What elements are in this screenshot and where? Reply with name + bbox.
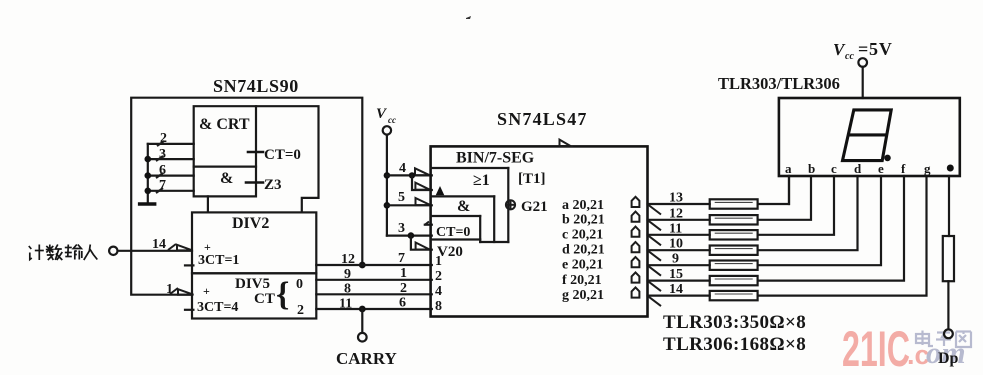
- svg-text:e: e: [878, 161, 884, 176]
- reset pins bus: [147, 144, 149, 204]
- internal CT box bottom: [431, 238, 481, 240]
- internal bottom joining: [480, 241, 508, 243]
- display pin dp wire: [948, 176, 950, 236]
- output row d: [562, 242, 639, 258]
- wire seg d out: [648, 249, 710, 251]
- svg-text:1: 1: [400, 266, 407, 281]
- 输: [65, 247, 72, 249]
- svg-text:{: {: [276, 276, 289, 313]
- 计: [29, 246, 32, 249]
- svg-text:CT=0: CT=0: [264, 147, 301, 163]
- wire pin3 branch: [411, 236, 432, 250]
- svg-text:3CT=1: 3CT=1: [198, 253, 239, 268]
- stub out DIV5: [185, 309, 193, 311]
- wire pin4 branch to RBI gate: [412, 175, 432, 190]
- svg-text:b: b: [808, 161, 815, 176]
- tick Z3: [246, 181, 263, 184]
- tick 3: [156, 156, 163, 161]
- resistor Rg: [710, 291, 758, 300]
- polarity triangle pin3 branch: [416, 243, 430, 250]
- wire g to display: [758, 176, 927, 296]
- svg-text:0: 0: [296, 277, 303, 292]
- display body: [779, 98, 960, 176]
- watermark 21IC.com 电子网: [842, 321, 971, 375]
- svg-text:3: 3: [398, 221, 405, 236]
- svg-text:15: 15: [669, 267, 683, 282]
- svg-text:14: 14: [152, 237, 166, 252]
- wire seg f out: [648, 280, 710, 282]
- svg-text:& CRT: & CRT: [199, 116, 250, 133]
- resistor Rd: [710, 246, 758, 255]
- slash e: [649, 266, 662, 276]
- wire e to display: [758, 176, 881, 265]
- junction pin6 bus: [145, 172, 152, 179]
- tick 6: [156, 173, 163, 178]
- LS90 control block box: [194, 106, 319, 212]
- tick 7: [156, 188, 163, 193]
- wire seg e out: [648, 264, 710, 266]
- svg-text:SN74LS47: SN74LS47: [497, 109, 588, 129]
- wire Vcc down: [386, 135, 388, 236]
- svg-text:f: f: [901, 161, 906, 176]
- svg-text:8: 8: [435, 299, 442, 314]
- output row g: [562, 287, 639, 303]
- output row e: [562, 257, 639, 273]
- pin 6 wire: [148, 175, 194, 177]
- AND dependency marker: [436, 186, 445, 195]
- wire to carry terminal: [361, 309, 363, 333]
- slash b: [649, 221, 662, 231]
- svg-text:3: 3: [159, 147, 166, 162]
- decimal point dot: [884, 155, 891, 162]
- 入: [84, 245, 91, 261]
- DIV2 box: [192, 212, 316, 273]
- resistor Rc: [710, 230, 758, 239]
- 数: [46, 249, 54, 251]
- svg-text:≥1: ≥1: [473, 172, 490, 189]
- tick pin14: [168, 244, 176, 250]
- terminal count input: [109, 247, 117, 255]
- svg-text:9: 9: [672, 252, 679, 267]
- speck artifact top center: [466, 16, 471, 19]
- svg-text:b 20,21: b 20,21: [562, 213, 605, 228]
- output row a: [562, 197, 639, 213]
- wire QC row: [316, 293, 432, 295]
- junction pin3 bus: [145, 156, 152, 163]
- slash d: [649, 251, 662, 261]
- svg-text:BIN/7-SEG: BIN/7-SEG: [456, 150, 535, 167]
- internal CT box right: [479, 216, 481, 242]
- wire QA row: [316, 264, 432, 266]
- junction QD carry: [359, 306, 366, 313]
- output row b: [562, 212, 639, 228]
- slash g: [649, 297, 662, 307]
- display dp pin dot: [947, 165, 954, 172]
- DIV5 box: [192, 273, 316, 318]
- wire seg c out: [648, 234, 710, 236]
- svg-text:+: +: [204, 240, 211, 254]
- svg-text:cc: cc: [845, 51, 854, 62]
- slash f: [649, 282, 662, 292]
- ground: [138, 202, 157, 205]
- IC body 74LS47: [431, 146, 648, 316]
- junction pin4: [384, 172, 391, 179]
- svg-text:3CT=4: 3CT=4: [197, 300, 238, 315]
- wire Vcc to display: [862, 67, 864, 98]
- clock triangle CKB: [178, 289, 194, 295]
- svg-text:21IC: 21IC: [842, 321, 910, 375]
- svg-text:6: 6: [399, 296, 406, 311]
- svg-text:5: 5: [398, 190, 405, 205]
- svg-text:d: d: [854, 161, 862, 176]
- svg-text:f 20,21: f 20,21: [562, 273, 602, 288]
- tick pin1: [170, 288, 178, 294]
- svg-text:&: &: [220, 170, 233, 187]
- svg-text:G21: G21: [521, 199, 548, 215]
- wire input to pin14: [118, 250, 192, 252]
- pin 2 wire: [148, 143, 194, 145]
- svg-text:CT: CT: [254, 291, 275, 307]
- resistor Rf: [710, 276, 758, 285]
- svg-text:DIV2: DIV2: [232, 215, 269, 232]
- clock triangle CKA: [177, 245, 193, 251]
- svg-text:DIV5: DIV5: [235, 276, 270, 292]
- svg-text:1: 1: [435, 254, 442, 269]
- svg-text:2: 2: [435, 269, 442, 284]
- svg-text:+: +: [203, 284, 210, 298]
- RBO stub: [425, 224, 432, 226]
- wire seg g out: [648, 295, 710, 297]
- pin 3 wire: [148, 158, 194, 160]
- wire seg b out: [648, 219, 710, 221]
- svg-text:12: 12: [341, 252, 355, 267]
- watermark 电子网 glyphs: [916, 331, 971, 348]
- top polarity triangle: [560, 140, 571, 146]
- svg-text:9: 9: [344, 267, 351, 282]
- svg-text:d 20,21: d 20,21: [562, 243, 605, 258]
- wire a to display: [758, 176, 789, 204]
- svg-text:2: 2: [400, 281, 407, 296]
- internal OR block top: [431, 167, 509, 169]
- 网: [956, 332, 971, 348]
- svg-text:c: c: [831, 161, 837, 176]
- display pin a drop: [788, 176, 790, 204]
- svg-text:g 20,21: g 20,21: [562, 288, 604, 303]
- tick 2: [157, 141, 164, 146]
- svg-text:4: 4: [435, 284, 442, 299]
- output row f: [562, 272, 639, 288]
- internal OR block right: [507, 168, 509, 242]
- svg-text:11: 11: [669, 221, 682, 236]
- resistor Ra: [710, 199, 758, 208]
- junction pin7 bus: [145, 188, 152, 195]
- svg-text:c 20,21: c 20,21: [562, 228, 603, 243]
- stub out DIV2: [185, 264, 193, 266]
- internal AND block right: [493, 196, 495, 242]
- terminal CARRY: [358, 333, 367, 342]
- svg-text:&: &: [457, 198, 470, 215]
- pin 7 wire: [148, 190, 194, 192]
- terminal Vcc display: [858, 58, 867, 67]
- svg-text:2: 2: [297, 303, 304, 318]
- svg-text:CT=0: CT=0: [436, 225, 470, 240]
- svg-text:Dp: Dp: [938, 350, 959, 367]
- svg-text:CARRY: CARRY: [336, 349, 397, 368]
- wire dp to terminal: [947, 281, 949, 329]
- resistor Re: [710, 261, 758, 270]
- svg-text:Z3: Z3: [264, 177, 282, 193]
- resistor Rdp: [943, 236, 954, 281]
- terminal Vcc: [383, 126, 391, 134]
- svg-text:11: 11: [339, 297, 352, 312]
- resistor Rb: [710, 215, 758, 224]
- svg-text:cc: cc: [388, 115, 396, 125]
- svg-text:e 20,21: e 20,21: [562, 258, 603, 273]
- svg-text:TLR303:350Ω×8: TLR303:350Ω×8: [663, 312, 806, 333]
- internal AND block top: [431, 195, 495, 197]
- 子: [937, 331, 950, 333]
- stub control to DIV2: [207, 196, 209, 212]
- svg-text:4: 4: [399, 161, 406, 176]
- wire d to display: [758, 176, 858, 250]
- junction pin4 branch: [409, 172, 415, 178]
- wire c to display: [758, 176, 834, 235]
- wire QD row: [316, 308, 432, 310]
- G21 circle-plus: [506, 200, 515, 209]
- svg-text:1: 1: [166, 282, 173, 297]
- wire QB row: [316, 279, 432, 281]
- svg-text:13: 13: [669, 191, 683, 206]
- svg-text:7: 7: [398, 251, 405, 266]
- svg-text:=5V: =5V: [858, 39, 893, 59]
- wire QA(12) to CKB(1) feedback route: [131, 98, 362, 295]
- polarity triangle branch: [415, 183, 430, 190]
- tick CT=0: [248, 151, 263, 154]
- svg-text:8: 8: [344, 282, 351, 297]
- seven segment digit: [843, 110, 892, 161]
- terminal Dp: [944, 329, 953, 338]
- svg-text:12: 12: [669, 206, 683, 221]
- slash a: [649, 205, 662, 215]
- internal CT box top: [431, 215, 481, 217]
- junction QA feedback: [359, 262, 366, 269]
- output row c: [562, 227, 639, 243]
- wire pin3: [387, 235, 432, 237]
- wire pin4: [387, 174, 432, 176]
- junction pin5: [384, 202, 391, 209]
- 电: [916, 334, 929, 343]
- wire seg a out: [648, 203, 710, 205]
- polarity triangle pin5: [416, 198, 431, 205]
- wire pin5: [387, 204, 432, 206]
- control block divider horizontal: [194, 166, 256, 168]
- svg-text:g: g: [924, 161, 931, 176]
- svg-text:14: 14: [669, 282, 683, 297]
- junction pin3 branch: [408, 232, 415, 239]
- wire b to display: [758, 176, 811, 220]
- RBO tick: [425, 222, 430, 226]
- svg-text:a: a: [785, 161, 792, 176]
- control block divider vertical: [255, 106, 257, 196]
- label 计数输入 (drawn): [29, 245, 98, 261]
- svg-text:TLR303/TLR306: TLR303/TLR306: [718, 74, 840, 93]
- svg-text:TLR306:168Ω×8: TLR306:168Ω×8: [663, 334, 806, 355]
- slash c: [649, 236, 662, 246]
- svg-text:SN74LS90: SN74LS90: [213, 76, 299, 96]
- svg-text:[T1]: [T1]: [518, 171, 546, 187]
- wire f to display: [758, 176, 904, 281]
- polarity triangle pin4: [415, 168, 430, 175]
- svg-text:10: 10: [669, 237, 683, 252]
- svg-text:a 20,21: a 20,21: [562, 198, 604, 213]
